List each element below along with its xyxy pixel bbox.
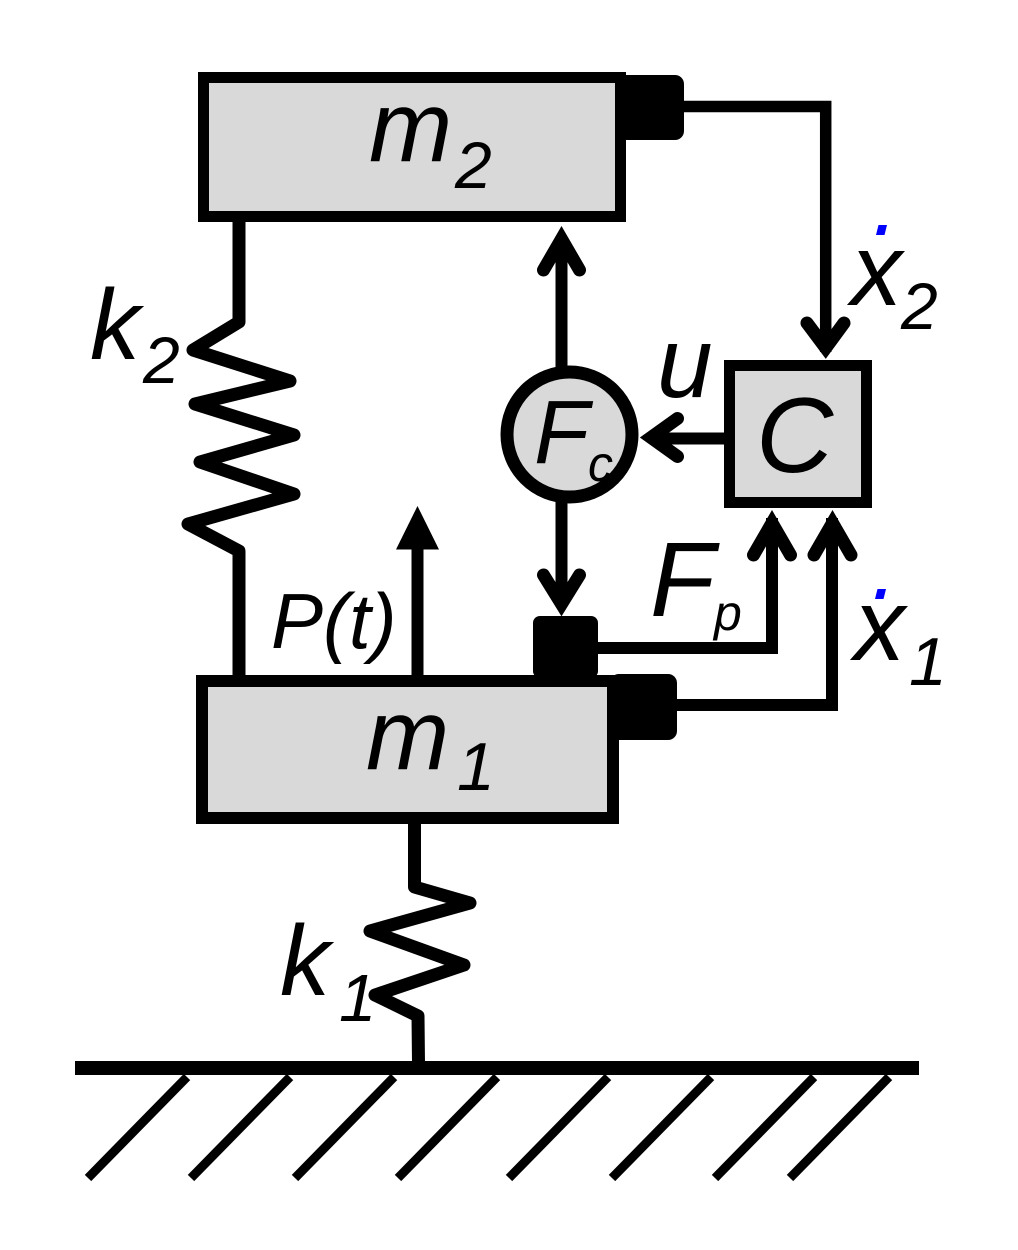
actuator Fc circle — [507, 372, 632, 497]
arrowhead u into actuator — [651, 419, 678, 457]
force arrow shaft Fc to m2 — [556, 240, 568, 372]
svg-text:1: 1 — [339, 961, 376, 1036]
svg-text:P(t): P(t) — [271, 577, 397, 665]
svg-text:m: m — [366, 679, 449, 791]
force arrow P(t) shaft — [412, 545, 424, 676]
sensor on m1 right side — [610, 674, 677, 740]
svg-text:1: 1 — [457, 729, 495, 805]
ground hatch 6 — [612, 1077, 711, 1178]
ground hatch 1 — [88, 1077, 187, 1178]
svg-text:k: k — [280, 905, 335, 1017]
spring k2 — [188, 222, 294, 676]
force arrow shaft Fc to m1 load cell — [556, 497, 568, 605]
svg-text:F: F — [534, 383, 594, 483]
ground hatch 8 — [790, 1077, 889, 1178]
dot over x1 — [875, 589, 886, 599]
wire u from controller to actuator — [654, 433, 724, 445]
mass m1 box — [202, 681, 613, 818]
ground line — [75, 1061, 919, 1075]
svg-text:x: x — [846, 213, 905, 327]
svg-text:1: 1 — [909, 624, 947, 700]
ground hatch 7 — [715, 1077, 814, 1178]
svg-text:2: 2 — [142, 323, 180, 397]
svg-text:k: k — [90, 269, 145, 381]
ground hatch 3 — [295, 1077, 394, 1178]
svg-text:2: 2 — [454, 128, 492, 202]
arrowhead x2dot into controller — [807, 323, 844, 348]
spring k1 — [370, 824, 470, 1063]
arrowhead up into m2 — [544, 239, 580, 270]
arrowhead Fp into controller — [754, 523, 791, 555]
svg-text:C: C — [756, 375, 834, 495]
ground hatch 2 — [191, 1077, 290, 1178]
sensor on m2 right side — [618, 75, 684, 140]
arrowhead down into load cell — [544, 575, 580, 604]
ground hatch 4 — [398, 1077, 497, 1178]
wire x2dot from sensor on m2 to controller — [684, 107, 826, 353]
wire x1dot from sensor to controller — [677, 518, 832, 705]
svg-text:p: p — [712, 585, 742, 641]
controller C box — [730, 366, 867, 503]
dot over x2 — [876, 225, 887, 235]
mass m2 box — [204, 78, 621, 217]
svg-text:x: x — [849, 568, 908, 682]
ground hatch 5 — [509, 1077, 608, 1178]
force arrow P(t) head — [396, 506, 439, 550]
svg-text:m: m — [369, 71, 452, 183]
svg-text:c: c — [588, 436, 613, 492]
arrowhead x1dot into controller — [814, 523, 851, 555]
load cell sensor on m1 top — [533, 616, 598, 678]
svg-text:2: 2 — [900, 269, 938, 343]
wire Fp from load cell to controller — [598, 518, 772, 648]
svg-text:u: u — [657, 307, 713, 419]
svg-text:F: F — [650, 521, 720, 639]
